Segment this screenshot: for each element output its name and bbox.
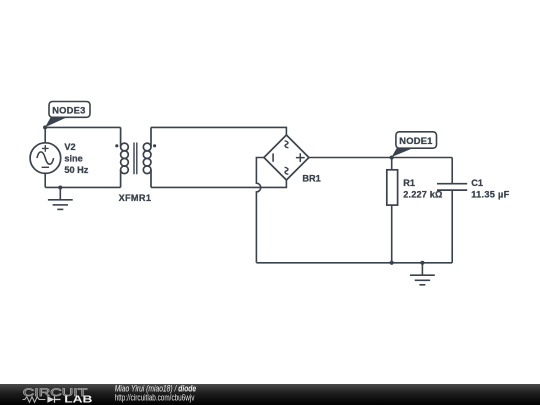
- wire source bottom lead: [44, 173, 46, 187]
- ground right: [410, 263, 435, 285]
- secondary phase dot: [153, 144, 156, 147]
- svg-text:C1: C1: [471, 178, 483, 188]
- svg-text:R1: R1: [403, 178, 415, 188]
- svg-text:http://circuitlab.com/cbu6wjv: http://circuitlab.com/cbu6wjv: [115, 393, 195, 403]
- svg-text:11.35 µF: 11.35 µF: [471, 190, 509, 200]
- wire source top lead: [44, 127, 46, 142]
- svg-text:sine: sine: [64, 153, 82, 163]
- wire secondary bottom to bridge bottom vertex: [151, 180, 286, 188]
- transformer XFMR1: [121, 127, 151, 187]
- junction dot node1: [390, 155, 394, 159]
- wire R1 bottom lead: [391, 205, 393, 263]
- secondary lead segments: [150, 127, 152, 187]
- secondary coil: [143, 143, 151, 151]
- wire C1 top lead: [451, 158, 453, 184]
- junction dot ground left: [58, 185, 62, 189]
- svg-text:NODE3: NODE3: [52, 105, 85, 116]
- junction dot ground right: [420, 261, 424, 265]
- minus marker (rotated): [272, 153, 274, 161]
- voltage source V2: [30, 143, 61, 174]
- ground left: [48, 188, 73, 210]
- node label NODE1: [392, 132, 437, 157]
- resistor R1: [387, 170, 398, 205]
- ac tilde bottom: [285, 167, 289, 174]
- wire bridge left vertex down with hop over horizontal: [256, 158, 264, 263]
- capacitor C1: [437, 184, 467, 190]
- wire top-left node3 to transformer primary: [45, 126, 120, 128]
- wire bottom-left horizontal: [45, 186, 120, 188]
- junction dot R1 bottom: [390, 261, 394, 265]
- primary phase dot: [115, 144, 118, 147]
- svg-text:XFMR1: XFMR1: [119, 193, 152, 203]
- node label NODE3: [45, 102, 90, 128]
- bridge rectifier BR1: [264, 135, 309, 180]
- footer logo resistor zigzag: [23, 397, 46, 403]
- wire secondary top to bridge: [151, 127, 286, 135]
- wire bottom rail: [256, 262, 452, 264]
- footer logo diode: [47, 396, 54, 402]
- svg-text:V2: V2: [64, 142, 75, 152]
- wire C1 bottom lead: [451, 190, 453, 263]
- svg-text:50 Hz: 50 Hz: [64, 165, 88, 175]
- core lines: [134, 143, 137, 175]
- svg-text:2.227 kΩ: 2.227 kΩ: [403, 190, 442, 200]
- ac tilde top: [285, 141, 289, 148]
- primary coil: [121, 143, 129, 151]
- svg-text:BR1: BR1: [302, 174, 320, 184]
- primary lead segments: [120, 127, 122, 187]
- wire R1 top lead: [391, 158, 393, 170]
- wire bridge right vertex to node1 and C1 column: [309, 157, 452, 159]
- plus marker: [296, 153, 305, 162]
- svg-text:LAB: LAB: [64, 393, 93, 405]
- junction dot node3: [43, 125, 47, 129]
- footer bar: [0, 384, 540, 405]
- svg-text:NODE1: NODE1: [399, 135, 432, 146]
